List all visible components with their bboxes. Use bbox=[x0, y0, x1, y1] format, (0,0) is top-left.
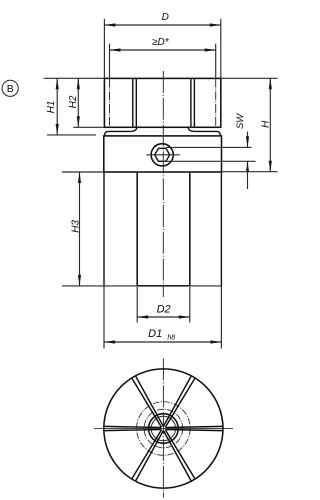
bushing body right side (D1 cylinder) bbox=[220, 172, 222, 286]
extension line head top left bbox=[44, 77, 105, 79]
D2 extension line left bbox=[136, 287, 138, 323]
svg-text:D: D bbox=[162, 12, 169, 23]
dimension D bbox=[104, 12, 220, 78]
grip lip right bbox=[188, 128, 220, 136]
svg-text:H3: H3 bbox=[70, 220, 81, 233]
svg-text:H2: H2 bbox=[68, 95, 79, 108]
dimension >=D* bbox=[110, 37, 216, 78]
centerline front view bbox=[162, 71, 164, 297]
svg-text:D2: D2 bbox=[157, 304, 171, 316]
grip head outline bbox=[104, 78, 220, 127]
view label B bbox=[2, 80, 18, 96]
dimension H3 bbox=[70, 172, 81, 286]
SW extension line bottom bbox=[166, 160, 255, 162]
knurl flute pair left bbox=[133, 78, 137, 127]
dimension D2 bbox=[137, 304, 190, 319]
hub outer circle bbox=[149, 414, 179, 444]
hex socket screw bbox=[146, 144, 179, 166]
grip lip left bbox=[105, 128, 137, 136]
extension line head top right bbox=[221, 77, 278, 79]
svg-text:h8: h8 bbox=[167, 334, 175, 341]
inner shaft D2 bbox=[137, 172, 191, 286]
extension line H2 bottom bbox=[73, 126, 104, 128]
extension line H1 bottom bbox=[47, 134, 96, 136]
D1 extension line right bbox=[220, 286, 222, 349]
spoke left bbox=[105, 426, 162, 430]
dimension SW bbox=[235, 113, 249, 189]
knurl flute pair right bbox=[191, 78, 195, 127]
dimension H bbox=[222, 78, 278, 171]
dash-dot circle outer bbox=[137, 402, 191, 456]
svg-text:SW: SW bbox=[235, 113, 246, 129]
dimension H2 bbox=[68, 78, 80, 127]
hub inner circle bbox=[151, 416, 175, 440]
D1 extension line left bbox=[103, 286, 105, 349]
dimension D1 h8 bbox=[104, 328, 221, 343]
H3 top extension bbox=[62, 171, 104, 173]
horizontal centerline bbox=[94, 427, 233, 429]
dash-dot circle inner bbox=[144, 409, 183, 448]
vertical centerline bbox=[162, 359, 164, 498]
bushing body left side (D1 cylinder) bbox=[103, 172, 105, 286]
spoke upper left bbox=[132, 376, 163, 427]
bottom edge thin line bbox=[62, 285, 222, 287]
spoke lower left bbox=[132, 430, 163, 481]
spoke right bbox=[165, 426, 222, 430]
flute centerline dash-dot left bbox=[109, 78, 111, 127]
flute centerline dash-dot right bbox=[215, 78, 217, 127]
svg-text:B: B bbox=[7, 83, 14, 95]
D2 extension line right bbox=[189, 287, 191, 323]
svg-text:H1: H1 bbox=[46, 101, 57, 114]
outer circle bbox=[104, 369, 223, 488]
svg-text:H: H bbox=[261, 120, 272, 128]
spoke upper right bbox=[164, 376, 195, 427]
svg-text:D1: D1 bbox=[148, 328, 162, 340]
SW extension line top bbox=[166, 146, 251, 148]
svg-text:≥D*: ≥D* bbox=[152, 37, 170, 48]
spoke lower right bbox=[164, 430, 195, 481]
collar bbox=[104, 136, 222, 172]
dimension H1 bbox=[46, 78, 59, 135]
